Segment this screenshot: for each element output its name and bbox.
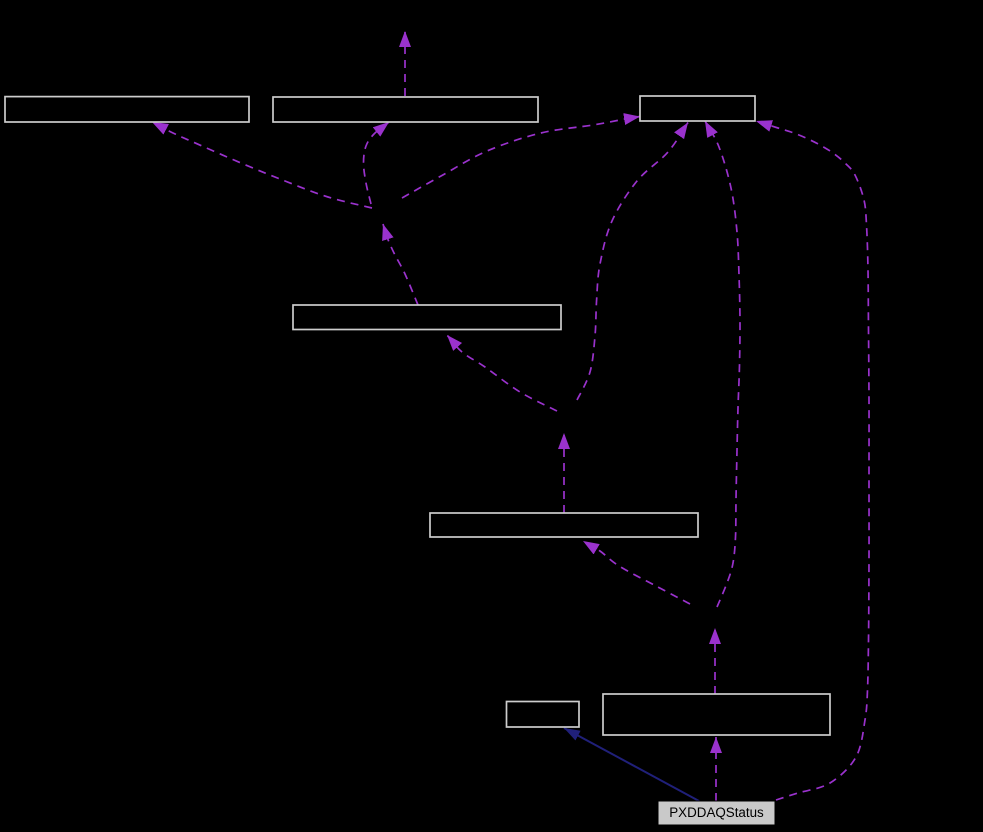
svg-text:PXDDAQStatus: PXDDAQStatus [669, 805, 764, 820]
